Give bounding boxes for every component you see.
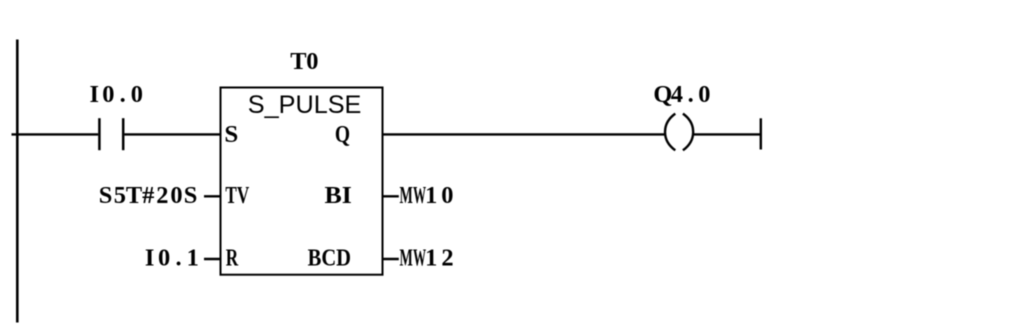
wire stub BCD output (383, 258, 399, 260)
svg-text:M: M (399, 245, 412, 272)
svg-text:BCD: BCD (308, 245, 351, 272)
wire stub BI output (383, 195, 399, 197)
svg-text:S5T#20S: S5T#20S (99, 182, 198, 209)
contact I0.0 left bar (98, 118, 101, 150)
svg-text:TV: TV (225, 182, 249, 209)
wire contact to timer box pin S (124, 133, 220, 135)
wire stub TV input (204, 195, 221, 197)
contact I0.0 right bar (122, 118, 125, 150)
left power rail (16, 40, 19, 323)
wire rail to contact I0.0 (12, 133, 99, 135)
svg-text:S_PULSE: S_PULSE (248, 91, 362, 119)
coil Q4.0 left parenthesis (665, 114, 675, 151)
svg-text:S: S (224, 121, 238, 148)
coil Q4.0 right parenthesis (683, 114, 693, 151)
wire coil to right rail (693, 133, 761, 135)
wire stub R input (204, 258, 221, 260)
wire Q output to coil (383, 133, 666, 135)
right rail terminal bar (760, 118, 762, 149)
svg-text:BI: BI (325, 182, 352, 209)
svg-text:M: M (399, 182, 412, 209)
svg-text:R: R (226, 245, 239, 272)
timer block T0 box outline (221, 88, 383, 275)
svg-text:Q: Q (335, 121, 350, 148)
svg-text:Q4.0: Q4.0 (653, 81, 710, 108)
svg-text:T0: T0 (290, 48, 318, 75)
